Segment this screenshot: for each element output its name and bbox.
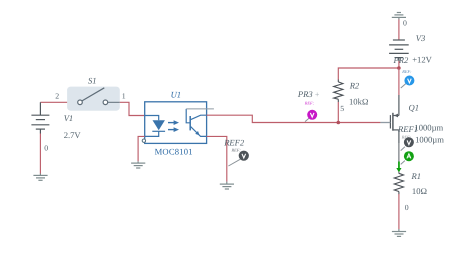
svg-text:REF:: REF: <box>231 148 242 153</box>
phototransistor inside U1 <box>186 109 206 136</box>
svg-text:REF:: REF: <box>401 69 412 74</box>
svg-text:10Ω: 10Ω <box>412 186 428 196</box>
svg-text:U1: U1 <box>171 89 182 99</box>
junction +12V node <box>397 66 401 70</box>
svg-text:0: 0 <box>44 143 48 152</box>
resistor R1 <box>394 172 403 194</box>
wire R1 to ground <box>398 194 400 229</box>
op-amp U1 optocoupler box <box>145 102 207 144</box>
svg-text:PR2: PR2 <box>393 55 409 65</box>
pin 1 marker circle <box>142 139 145 142</box>
svg-text:REF2: REF2 <box>223 138 245 148</box>
wire V1 to ground <box>39 134 41 174</box>
probe REF1 <box>401 137 414 150</box>
junction node 5 <box>337 121 341 125</box>
svg-text:2: 2 <box>55 92 59 101</box>
svg-text:REF:: REF: <box>304 101 315 106</box>
svg-text:R2: R2 <box>349 81 360 91</box>
wire ground to V3 <box>398 20 400 40</box>
light arrows inside U1 <box>168 120 179 132</box>
base pin stub pin 6 <box>186 108 214 110</box>
gate stub gray <box>380 122 390 124</box>
wire V1 top to switch pin 2 <box>40 101 77 103</box>
transistor Q1 <box>380 95 399 143</box>
svg-text:10kΩ: 10kΩ <box>349 96 369 106</box>
probe PR1 current <box>401 151 414 164</box>
battery V1 <box>31 102 49 133</box>
probe REF2 <box>228 148 249 166</box>
ground under U1 <box>131 161 145 168</box>
svg-text:PR3: PR3 <box>297 89 313 99</box>
svg-text:2.7V: 2.7V <box>64 130 82 140</box>
wire +12V node to Q1 drain <box>398 68 400 95</box>
svg-text:+: + <box>315 90 320 99</box>
resistor R2 <box>334 80 343 103</box>
LED inside U1 <box>145 116 165 137</box>
svg-text:0: 0 <box>405 203 409 212</box>
wire R2 top rail to +12V node <box>338 68 399 80</box>
wire V3 to +12V junction <box>398 61 400 68</box>
wire R2 bottom to node 5 <box>337 102 339 123</box>
wire U1 collector to node 5 and Q1 gate <box>207 115 381 122</box>
inverted ground above V3 <box>392 13 406 20</box>
svg-text:Q1: Q1 <box>409 103 420 113</box>
ground under V1 <box>33 174 47 181</box>
wire Q1 source to R1 <box>398 143 400 172</box>
svg-text:+12V: +12V <box>412 55 432 65</box>
probe PR2 <box>401 76 415 89</box>
wire U1 emitter to REF2 ground <box>207 136 227 181</box>
svg-text:S1: S1 <box>88 76 97 86</box>
probe PR3 <box>305 110 317 122</box>
ground under REF2 <box>220 182 234 189</box>
ground bottom right <box>392 229 406 236</box>
svg-text:MOC8101: MOC8101 <box>155 146 193 156</box>
svg-text:1000µm: 1000µm <box>414 122 443 132</box>
wire switch pin1 to U1 anode <box>120 102 145 115</box>
svg-text:0: 0 <box>403 19 407 28</box>
battery V3 <box>389 40 409 61</box>
svg-text:5: 5 <box>340 104 344 113</box>
switch S1 <box>67 87 120 111</box>
wire U1 cathode to ground <box>138 136 145 161</box>
svg-text:V1: V1 <box>64 113 74 123</box>
svg-text:R1: R1 <box>411 171 422 181</box>
svg-text:V3: V3 <box>416 33 426 43</box>
current direction arrow green <box>396 162 401 173</box>
svg-text:1: 1 <box>122 91 126 100</box>
svg-text:1000µm: 1000µm <box>415 134 444 144</box>
